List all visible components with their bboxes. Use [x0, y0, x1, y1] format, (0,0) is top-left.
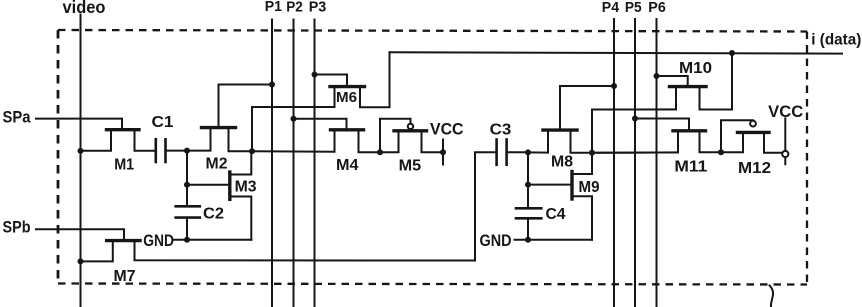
- node P6/M10 gate: [654, 73, 660, 79]
- node video/M1: [78, 148, 84, 154]
- svg-text:P5: P5: [625, 0, 642, 16]
- transistor M11: [592, 119, 721, 153]
- svg-text:M1: M1: [114, 157, 134, 174]
- svg-text:M10: M10: [679, 60, 712, 77]
- svg-text:GND: GND: [143, 231, 174, 250]
- node M4/M5: [377, 149, 383, 155]
- node P4/M8 gate: [611, 83, 617, 89]
- svg-text:M4: M4: [336, 157, 359, 174]
- wire C1 node to C2: [186, 151, 188, 207]
- transistor M1: [81, 130, 156, 151]
- node P2/M4 gate: [291, 116, 297, 122]
- transistor M7: [81, 241, 476, 262]
- node M11/M12: [718, 149, 724, 155]
- power VCC left terminal: [442, 140, 444, 165]
- transistor M3: [187, 151, 251, 239]
- capacitor C1: [156, 139, 187, 162]
- svg-text:P4: P4: [602, 0, 620, 16]
- svg-text:C2: C2: [203, 206, 224, 223]
- svg-text:C4: C4: [546, 206, 566, 223]
- wire SPb input: [36, 229, 124, 239]
- svg-text:VCC: VCC: [430, 120, 464, 138]
- wire node B riser to M10: [592, 109, 676, 152]
- power VCC right terminal: [782, 118, 788, 164]
- svg-text:C1: C1: [152, 114, 174, 131]
- transistor M10: [592, 53, 732, 110]
- node C4/GND: [525, 237, 531, 243]
- node C2/GND: [184, 237, 190, 243]
- wire C3 node to C4: [527, 152, 529, 208]
- svg-text:i (data): i (data): [811, 31, 861, 48]
- svg-text:P2: P2: [286, 0, 303, 15]
- transistor M8: [528, 86, 614, 153]
- svg-text:P3: P3: [309, 0, 327, 15]
- wire i(data) output line: [390, 52, 843, 53]
- capacitor C3: [497, 140, 528, 165]
- svg-text:video: video: [63, 0, 106, 17]
- wire SPa input: [36, 119, 122, 129]
- wire node A riser to M6: [252, 107, 333, 151]
- node P1 (vertical line): [271, 20, 273, 307]
- capacitor C2: [176, 206, 200, 239]
- dashed block border: [58, 30, 807, 285]
- transistor M2: [187, 85, 272, 152]
- svg-text:VCC: VCC: [768, 103, 803, 121]
- node P3 (vertical line): [314, 20, 316, 307]
- node A: [249, 148, 255, 154]
- svg-text:M2: M2: [206, 156, 228, 173]
- node M3 gate tap: [184, 182, 190, 188]
- transistor M12 (PMOS): [721, 120, 782, 153]
- node C1 output: [184, 148, 190, 154]
- svg-text:P6: P6: [648, 0, 666, 16]
- ground GND right rail: [515, 239, 593, 241]
- transistor M4: [252, 119, 380, 152]
- node i(data)/M10: [729, 50, 735, 56]
- callout curve bottom right: [770, 286, 774, 307]
- svg-text:C3: C3: [490, 121, 512, 138]
- svg-text:SPb: SPb: [3, 218, 31, 237]
- svg-text:M3: M3: [235, 179, 257, 196]
- node P5/M11 gate: [632, 116, 638, 122]
- capacitor C4: [516, 208, 541, 240]
- node B: [589, 150, 595, 156]
- transistor M5 (PMOS): [380, 119, 443, 153]
- node video (vertical input line): [80, 15, 82, 307]
- wire node B to M11: [592, 151, 678, 153]
- svg-text:M9: M9: [579, 179, 600, 196]
- node P3/M6 gate: [312, 72, 318, 78]
- node P4 (vertical line): [613, 19, 615, 307]
- svg-text:M11: M11: [674, 158, 707, 175]
- ground GND left rail: [174, 239, 251, 241]
- svg-text:M12: M12: [738, 160, 771, 177]
- svg-text:P1: P1: [265, 0, 282, 15]
- node VCC left: [440, 149, 446, 155]
- svg-text:M8: M8: [551, 154, 573, 171]
- node P2 (vertical line): [293, 20, 295, 307]
- node P5 (vertical line): [634, 19, 636, 307]
- node M9 gate tap: [525, 182, 531, 188]
- node P6 (vertical line): [656, 19, 658, 307]
- svg-text:SPa: SPa: [3, 108, 31, 127]
- transistor M6: [252, 52, 390, 107]
- wire M7 drain riser to C3: [475, 152, 496, 260]
- node P1/M2 gate: [269, 82, 275, 88]
- svg-text:GND: GND: [480, 231, 512, 250]
- transistor M9: [528, 153, 592, 240]
- svg-text:M7: M7: [114, 268, 136, 285]
- node C3 output: [525, 149, 531, 155]
- node video/M7: [78, 258, 84, 264]
- svg-text:M5: M5: [399, 158, 422, 175]
- svg-text:M6: M6: [336, 90, 357, 106]
